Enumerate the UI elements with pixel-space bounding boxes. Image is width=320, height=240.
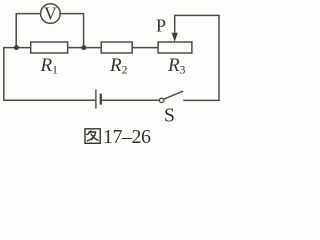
resistor R1 [31, 42, 68, 53]
wiper P arrow stem and top wire [175, 15, 219, 100]
wire top row left [4, 47, 31, 49]
caption 图 17-26 [85, 126, 151, 148]
switch S lever [164, 91, 183, 99]
wiper P arrowhead [172, 33, 178, 42]
node junction dot right [81, 45, 86, 50]
svg-text:17–26: 17–26 [103, 126, 151, 148]
wire between R2 and R3 [132, 47, 158, 49]
wire left vertical voltmeter branch [16, 14, 40, 48]
wire bottom left to battery [4, 99, 95, 101]
battery BT1 long plate [95, 89, 96, 108]
svg-text:V: V [44, 4, 57, 24]
wire between R1 and R2 [68, 47, 102, 49]
battery BT1 short plate [100, 94, 102, 105]
rheostat R3 [158, 42, 192, 53]
wire battery to switch [102, 99, 160, 101]
switch S pivot circle [159, 98, 163, 102]
resistor R2 [101, 42, 132, 53]
voltmeter U1 circle [41, 4, 61, 24]
svg-text:S: S [164, 106, 175, 127]
node junction dot left [14, 45, 19, 50]
wire switch to right corner [184, 99, 219, 101]
wire right vertical voltmeter branch [60, 14, 83, 48]
svg-text:P: P [156, 16, 166, 36]
wire left side vertical [3, 48, 5, 101]
